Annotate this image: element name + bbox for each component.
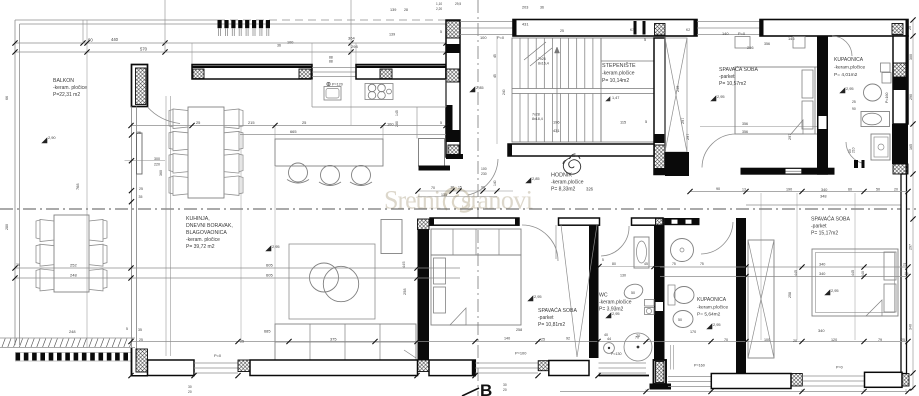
svg-text:445: 445 — [401, 262, 406, 269]
svg-text:20: 20 — [451, 186, 455, 190]
kupaonica 4,01 south door — [846, 142, 864, 164]
svg-text:140: 140 — [493, 180, 497, 186]
wall living east — [418, 219, 430, 230]
svg-text:70: 70 — [431, 186, 435, 190]
svg-text:280: 280 — [395, 121, 399, 127]
svg-text:P=160: P=160 — [694, 364, 705, 368]
balcony chair right — [89, 220, 107, 242]
svg-text:25: 25 — [139, 187, 143, 191]
svg-text:75: 75 — [700, 262, 704, 266]
svg-text:30: 30 — [503, 383, 507, 387]
svg-text:STEPENIŠTE: STEPENIŠTE — [602, 62, 636, 69]
svg-text:297: 297 — [681, 118, 685, 124]
bottom wall bar east — [865, 372, 903, 387]
svg-text:20: 20 — [188, 390, 192, 394]
svg-text:25: 25 — [901, 338, 905, 342]
bottom opening east of pier — [668, 376, 711, 378]
kupaonica 4,01 door arc — [832, 36, 852, 56]
svg-text:45: 45 — [493, 74, 497, 78]
svg-text:90: 90 — [88, 38, 93, 43]
wall kitchen north bar 2 — [356, 65, 446, 80]
svg-text:25: 25 — [908, 26, 912, 30]
extension hairlines top walls — [191, 43, 193, 65]
balcony chair left — [36, 269, 54, 291]
svg-text:-keram. pločice: -keram. pločice — [53, 85, 87, 91]
svg-text:35: 35 — [139, 195, 143, 199]
svg-text:K2: K2 — [686, 28, 690, 32]
wc south opening — [599, 362, 647, 364]
svg-text:-keram. pločice: -keram. pločice — [186, 237, 220, 243]
svg-text:13: 13 — [742, 188, 746, 192]
svg-text:145: 145 — [395, 110, 399, 116]
svg-text:140: 140 — [504, 337, 510, 341]
svg-text:120: 120 — [831, 338, 837, 342]
balcony dining table — [54, 215, 89, 292]
svg-text:440: 440 — [111, 37, 119, 42]
svg-text:135: 135 — [441, 193, 447, 197]
svg-text:P=100: P=100 — [515, 351, 527, 356]
svg-text:297: 297 — [909, 244, 913, 250]
svg-text:2,95: 2,95 — [846, 86, 854, 91]
svg-text:2,85: 2,85 — [532, 176, 540, 181]
kitchen entry door arc — [148, 107, 181, 124]
hodnik ornament flower — [563, 158, 580, 175]
facade line pair — [165, 96, 167, 356]
svg-text:P=0: P=0 — [836, 366, 843, 370]
svg-text:290: 290 — [909, 94, 913, 100]
stair treads lower flight — [519, 94, 521, 143]
bottom dimension chain — [560, 391, 908, 393]
bottom wall hatch block — [238, 360, 250, 372]
svg-text:B: B — [480, 381, 492, 396]
wc south sill — [599, 375, 650, 377]
balcony bottom railing squares — [16, 353, 21, 361]
stair break line — [524, 42, 546, 60]
svg-text:220: 220 — [154, 163, 160, 167]
svg-text:50: 50 — [678, 318, 682, 322]
svg-text:258: 258 — [402, 289, 407, 296]
svg-text:605: 605 — [266, 273, 273, 278]
svg-text:326: 326 — [586, 187, 594, 192]
chair right — [224, 154, 243, 174]
sofa — [275, 324, 416, 360]
svg-text:P=130: P=130 — [611, 352, 622, 356]
stair treads upper flight — [519, 38, 521, 89]
svg-text:P=22,31 m2: P=22,31 m2 — [53, 92, 80, 98]
island stools — [289, 163, 308, 182]
svg-text:20: 20 — [503, 388, 507, 392]
chair left — [169, 176, 188, 196]
svg-text:297: 297 — [788, 134, 792, 140]
svg-text:P=0: P=0 — [214, 353, 222, 358]
svg-text:79: 79 — [878, 338, 882, 342]
svg-text:25: 25 — [852, 100, 856, 104]
window kitchen north — [312, 67, 356, 69]
top wall window middle — [697, 21, 760, 23]
balcony outline — [15, 19, 217, 21]
svg-text:100: 100 — [480, 35, 487, 40]
bed 10,81 — [431, 255, 521, 325]
bottom wall bar west — [148, 360, 195, 376]
svg-text:DNEVNI BORAVAK,: DNEVNI BORAVAK, — [186, 223, 233, 229]
svg-text:8x16,4: 8x16,4 — [538, 62, 549, 66]
stairwell outline — [512, 38, 654, 142]
svg-text:20: 20 — [793, 339, 797, 343]
bedroom 10,57 south wall — [741, 168, 835, 175]
shower partition lines — [670, 345, 672, 370]
toilet 4,01 — [864, 84, 882, 101]
svg-text:203: 203 — [522, 6, 528, 10]
bottom hatch block 4 — [902, 374, 909, 386]
svg-text:45: 45 — [493, 54, 497, 58]
svg-text:29,5: 29,5 — [455, 2, 461, 6]
svg-text:215: 215 — [248, 120, 255, 125]
svg-text:90: 90 — [716, 187, 720, 191]
svg-text:300: 300 — [909, 54, 913, 60]
svg-text:25: 25 — [903, 263, 907, 267]
wall stairhall west — [446, 20, 460, 157]
chair left — [169, 154, 188, 174]
svg-text:100: 100 — [764, 338, 770, 342]
wc toilet — [622, 282, 644, 301]
svg-text:140: 140 — [722, 31, 729, 36]
balcony chair right — [89, 269, 107, 291]
wall between kupaonica and bedroom 15,17 — [736, 218, 746, 374]
svg-text:25: 25 — [240, 340, 244, 344]
balcony bottom railing hatch line — [0, 337, 135, 339]
vertical chain x85 — [86, 20, 88, 348]
bedroom 10,57 door arc — [702, 134, 736, 168]
svg-text:2,90: 2,90 — [48, 135, 56, 140]
wc inner chain — [599, 266, 665, 268]
svg-text:80: 80 — [612, 262, 616, 266]
svg-text:2,95: 2,95 — [272, 244, 280, 249]
watermark Sretni Stanovi — [384, 186, 533, 215]
svg-text:P=0: P=0 — [497, 35, 505, 40]
svg-text:70: 70 — [724, 338, 728, 342]
svg-text:5: 5 — [644, 38, 646, 42]
bottom wall bar bedroom east — [549, 361, 589, 376]
hodnik entry chain — [418, 190, 513, 192]
svg-text:7x28: 7x28 — [532, 113, 540, 117]
svg-text:35: 35 — [138, 328, 142, 332]
svg-text:30: 30 — [188, 385, 192, 389]
svg-text:25: 25 — [302, 120, 306, 125]
tv bench — [381, 220, 402, 254]
svg-text:5: 5 — [602, 258, 604, 262]
svg-text:2,95: 2,95 — [713, 322, 721, 327]
wc door arc — [601, 226, 629, 256]
svg-text:92: 92 — [566, 337, 570, 341]
balcony chair left — [36, 244, 54, 266]
bottom opening P=0 — [194, 362, 238, 364]
washbasin 4,01 — [861, 112, 890, 127]
coffee tables round — [310, 263, 339, 292]
wc floor drain circles — [604, 343, 615, 354]
balcony top railing squares — [218, 20, 222, 28]
top wall window west — [460, 21, 513, 23]
svg-text:2,20: 2,20 — [436, 7, 442, 11]
svg-text:15: 15 — [458, 186, 462, 190]
bed 10,57 — [735, 67, 815, 134]
kitchen counter L wall spur — [419, 166, 451, 171]
svg-text:100: 100 — [387, 122, 394, 127]
glass wall west (balcony doors) — [131, 107, 133, 361]
living room rug — [289, 244, 375, 319]
svg-text:70: 70 — [635, 336, 639, 340]
nightstands 10,57 — [735, 37, 750, 49]
svg-text:445: 445 — [851, 270, 855, 276]
left mid dimension chains — [15, 267, 460, 269]
kitchen counter top run — [311, 79, 313, 107]
svg-text:-keram.pločice: -keram.pločice — [834, 65, 866, 71]
bottom hatch block 2 — [538, 361, 549, 371]
kupaonica 5,64 door arc — [701, 222, 733, 254]
svg-text:1,47: 1,47 — [612, 96, 619, 100]
svg-text:28: 28 — [404, 8, 408, 12]
svg-text:258: 258 — [516, 328, 522, 332]
svg-text:WC: WC — [599, 293, 608, 299]
svg-text:KUPAONICA: KUPAONICA — [697, 297, 727, 303]
chair left — [169, 109, 188, 129]
svg-text:431: 431 — [553, 128, 560, 133]
svg-text:570: 570 — [140, 47, 148, 52]
wall hodnik north bar — [508, 144, 654, 156]
svg-text:50: 50 — [876, 188, 880, 192]
pier base south of wc — [650, 384, 672, 390]
svg-text:P= 10,81m2: P= 10,81m2 — [538, 322, 565, 328]
extension hairlines right section — [760, 193, 762, 340]
svg-text:25: 25 — [137, 131, 141, 135]
svg-text:66: 66 — [5, 96, 9, 100]
svg-text:356: 356 — [742, 130, 748, 134]
toilet 5,64 — [673, 311, 693, 328]
wall bar wc north — [632, 218, 664, 225]
extension lines to bottom chain — [645, 389, 647, 392]
bottom hatch block 3 — [791, 374, 802, 387]
svg-text:7x26: 7x26 — [538, 57, 546, 61]
svg-text:KUHINJA,: KUHINJA, — [186, 216, 210, 222]
svg-text:P= 10,57m2: P= 10,57m2 — [719, 81, 746, 87]
svg-text:P=120: P=120 — [332, 83, 343, 87]
svg-text:8x18,4: 8x18,4 — [532, 117, 543, 121]
kitchen sink — [324, 87, 341, 101]
bottom wall bar bedroom west — [429, 360, 475, 376]
section line A-A horizontal — [0, 208, 919, 210]
svg-text:445: 445 — [794, 270, 798, 276]
svg-text:364: 364 — [348, 36, 355, 41]
svg-text:139: 139 — [389, 33, 395, 37]
bedroom 10,81 door arc — [522, 225, 558, 261]
top wall bar A — [513, 20, 697, 37]
kitchen island — [275, 139, 383, 166]
svg-text:300: 300 — [154, 157, 160, 161]
right edge rotated dims — [912, 20, 914, 390]
svg-text:-keram.pločice: -keram.pločice — [551, 180, 584, 186]
svg-text:-keram.pločice: -keram.pločice — [697, 305, 729, 311]
svg-text:356: 356 — [764, 42, 770, 46]
chair right — [224, 176, 243, 196]
svg-text:25: 25 — [196, 120, 200, 125]
svg-text:280: 280 — [5, 224, 9, 230]
right outer wall lower — [901, 174, 907, 374]
svg-text:45: 45 — [644, 262, 648, 266]
chair left — [169, 131, 188, 151]
wall bar above wc — [559, 218, 600, 225]
svg-text:665: 665 — [290, 129, 297, 134]
svg-text:P= 8,33m2: P= 8,33m2 — [551, 187, 576, 193]
svg-text:88: 88 — [329, 60, 333, 64]
wc sink — [634, 237, 649, 268]
wall kitchen north bar 1 — [192, 65, 312, 80]
svg-text:20: 20 — [894, 188, 898, 192]
svg-text:100: 100 — [287, 41, 293, 45]
svg-text:196: 196 — [553, 120, 560, 125]
svg-text:440: 440 — [861, 271, 865, 277]
svg-text:5: 5 — [645, 119, 647, 124]
right outer wall upper — [893, 36, 908, 124]
svg-text:2,95: 2,95 — [612, 311, 620, 316]
svg-text:340: 340 — [818, 328, 825, 333]
wall bedroom-kupaonica 4,01 — [817, 36, 828, 175]
wall kitchen west pier — [132, 65, 148, 107]
wc small fixtures — [645, 300, 655, 307]
svg-text:-parket: -parket — [811, 224, 827, 230]
svg-text:KUPAONICA: KUPAONICA — [834, 57, 864, 63]
svg-text:SPAVAĆA SOBA: SPAVAĆA SOBA — [538, 307, 577, 314]
svg-text:190: 190 — [786, 188, 792, 192]
balcony chair left — [36, 220, 54, 242]
svg-text:90: 90 — [852, 107, 856, 111]
svg-text:340: 340 — [819, 272, 825, 276]
svg-text:5: 5 — [440, 121, 442, 125]
svg-text:356: 356 — [742, 122, 748, 126]
svg-text:SPAVAĆA SOBA: SPAVAĆA SOBA — [811, 216, 850, 223]
kitchen dimension chain — [131, 125, 446, 127]
svg-text:170: 170 — [690, 330, 696, 334]
svg-text:44: 44 — [607, 337, 611, 341]
svg-text:2,95: 2,95 — [534, 294, 542, 299]
svg-text:375: 375 — [330, 337, 337, 342]
extension lines top — [164, 0, 166, 52]
wall bar hodnik south west — [430, 218, 519, 225]
shower 5,64 — [671, 239, 694, 262]
svg-text:75: 75 — [672, 262, 676, 266]
wardrobe 15,17 — [748, 240, 774, 358]
svg-text:BALKON: BALKON — [53, 78, 74, 84]
svg-text:248: 248 — [69, 329, 76, 334]
svg-text:-keram.pločice: -keram.pločice — [599, 300, 632, 306]
svg-text:-parket: -parket — [538, 315, 554, 321]
right lower chain — [660, 341, 908, 343]
svg-text:-keram.pločice: -keram.pločice — [602, 71, 635, 77]
right section inner chain — [690, 191, 908, 193]
svg-text:P=160: P=160 — [885, 93, 889, 104]
bottom window bedroom 15,17 — [802, 375, 864, 377]
bedroom 10,57 inner chain — [700, 126, 826, 128]
svg-text:115: 115 — [620, 120, 626, 125]
svg-text:P= 10,14m2: P= 10,14m2 — [602, 78, 629, 84]
svg-text:50: 50 — [631, 291, 635, 295]
stair mid landing lines — [512, 88, 654, 90]
wall kupaonica north — [665, 218, 700, 225]
svg-text:139: 139 — [390, 8, 396, 12]
chair right — [224, 131, 243, 151]
svg-text:252: 252 — [70, 263, 77, 268]
svg-text:130: 130 — [620, 274, 626, 278]
svg-text:P=0: P=0 — [738, 31, 746, 36]
right section mid chain — [660, 266, 908, 268]
svg-text:P= 15,17m2: P= 15,17m2 — [811, 231, 838, 237]
svg-text:36: 36 — [16, 263, 20, 267]
svg-text:HODNIK: HODNIK — [551, 173, 572, 179]
svg-text:768: 768 — [75, 184, 80, 191]
chair right — [224, 109, 243, 129]
svg-text:BLAGOVAONICA: BLAGOVAONICA — [186, 230, 227, 236]
bottom wall bar kupaonica — [711, 374, 791, 389]
top wall bar B — [760, 20, 908, 37]
svg-text:2,95: 2,95 — [831, 288, 839, 293]
svg-text:431: 431 — [522, 22, 529, 27]
bottom living chain — [131, 341, 660, 343]
svg-text:stanovi: stanovi — [461, 186, 533, 215]
svg-text:25: 25 — [560, 29, 564, 33]
svg-text:2,85: 2,85 — [476, 85, 484, 90]
svg-text:35: 35 — [905, 272, 909, 276]
corner wall piece hodnik NE — [665, 152, 689, 176]
svg-text:K3: K3 — [630, 28, 634, 32]
extension hairlines living — [240, 127, 242, 340]
svg-text:P= 5,64m2: P= 5,64m2 — [697, 312, 721, 318]
right wall bathroom section — [892, 124, 908, 164]
svg-text:36: 36 — [540, 6, 544, 10]
svg-text:258: 258 — [788, 292, 792, 298]
svg-text:5: 5 — [440, 30, 442, 34]
svg-text:340: 340 — [819, 263, 825, 267]
svg-text:25: 25 — [541, 338, 545, 342]
svg-text:360: 360 — [159, 170, 163, 176]
door notch bedroom-bath wall — [819, 116, 827, 129]
svg-text:340: 340 — [909, 324, 913, 330]
stair direction line — [556, 47, 558, 133]
svg-text:165: 165 — [909, 144, 913, 150]
section line B-B vertical — [477, 0, 479, 396]
svg-text:5: 5 — [126, 327, 128, 331]
dining table interior — [188, 107, 224, 198]
svg-text:-parket: -parket — [719, 74, 735, 80]
sliding door leaf — [137, 133, 143, 174]
svg-text:605: 605 — [266, 263, 273, 268]
svg-text:36: 36 — [277, 44, 281, 48]
svg-text:2,95: 2,95 — [717, 94, 725, 99]
svg-text:P= 39,72 m2: P= 39,72 m2 — [186, 244, 215, 250]
kitchen stove 4 burners — [365, 84, 393, 100]
svg-text:230: 230 — [481, 172, 487, 176]
svg-text:685: 685 — [264, 329, 271, 334]
svg-text:240: 240 — [502, 89, 506, 95]
svg-text:245: 245 — [676, 86, 680, 92]
svg-text:210: 210 — [852, 147, 856, 153]
svg-text:298: 298 — [351, 44, 358, 49]
stairwell east wall — [654, 38, 665, 175]
svg-text:1,10: 1,10 — [436, 2, 442, 6]
wardrobe 10,81 — [431, 229, 521, 255]
svg-text:297: 297 — [686, 134, 690, 140]
svg-text:P= 4,01m2: P= 4,01m2 — [834, 72, 858, 78]
sw corner pier — [136, 349, 148, 372]
svg-text:100: 100 — [481, 167, 487, 171]
wall wc-kupaonica divider — [654, 225, 665, 346]
